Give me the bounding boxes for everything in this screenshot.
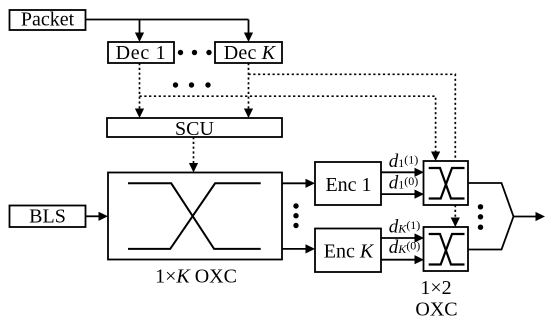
svg-text:dK(0): dK(0) [389, 237, 421, 258]
wire branch to Dec 1 with arrowhead [135, 20, 144, 43]
dashed control wire Dec K to SCU with arrowhead [244, 63, 253, 118]
wire Enc 1 output d1(1) with arrowhead [381, 168, 424, 177]
vertical ellipsis between OXC outputs [293, 203, 298, 228]
wire Enc K output dK(1) with arrowhead [381, 233, 424, 242]
crossover inside 1x2 OXC 1 [429, 168, 465, 199]
svg-text:Enc K: Enc K [324, 241, 375, 263]
block Dec K [215, 42, 282, 64]
dashed control wire Dec 1 to SCU with arrowhead [135, 63, 144, 118]
svg-text:BLS: BLS [29, 206, 66, 228]
svg-text:d1(0): d1(0) [389, 173, 419, 194]
wire 1xK OXC to Enc K with arrowhead [282, 244, 315, 253]
wire final output with arrowhead [513, 212, 546, 221]
svg-text:Dec K: Dec K [224, 42, 277, 64]
block 1x2 OXC 1 [424, 161, 469, 205]
svg-text:1×K OXC: 1×K OXC [155, 266, 237, 288]
wire Enc 1 output d1(0) with arrowhead [381, 190, 424, 199]
block Enc K [315, 229, 381, 273]
wire Packet output horizontal [86, 19, 249, 21]
ellipsis between Dec 1 and Dec K [178, 50, 212, 55]
label 1x2 OXC [415, 277, 457, 321]
block SCU [107, 118, 282, 140]
crossover path 2 inside 1xK OXC [128, 183, 261, 249]
block Dec 1 [108, 42, 174, 64]
svg-text:Dec 1: Dec 1 [116, 42, 167, 64]
svg-text:Packet: Packet [21, 9, 75, 31]
svg-text:SCU: SCU [175, 118, 214, 140]
dashed control wire lower: Dec 1 branch to 1x2 OXC 1 with arrowhead [140, 96, 441, 161]
block 1x2 OXC 2 [424, 227, 469, 271]
wire 1x2 OXC 1 output converging [468, 183, 514, 217]
svg-text:Enc 1: Enc 1 [325, 174, 371, 196]
block BLS [10, 206, 86, 228]
wire Enc K output dK(0) with arrowhead [381, 255, 424, 264]
svg-text:d1(1): d1(1) [389, 151, 419, 172]
block 1xK OXC [108, 173, 282, 260]
crossover path 1 inside 1xK OXC [128, 183, 261, 249]
wire 1x2 OXC 2 output converging [468, 217, 514, 250]
wire branch to Dec K with arrowhead [244, 20, 253, 43]
ellipsis above SCU [173, 82, 211, 87]
wire BLS to 1xK OXC with arrowhead [86, 212, 109, 221]
vertical ellipsis between 1x2 OXC outputs [478, 204, 483, 230]
dashed control wire upper: Dec K branch to 1x2 OXC 2 [249, 74, 460, 227]
block Packet [10, 9, 86, 31]
wire 1xK OXC to Enc 1 with arrowhead [282, 179, 315, 188]
crossover inside 1x2 OXC 2 [429, 234, 465, 265]
svg-text:OXC: OXC [415, 299, 457, 321]
dashed control wire SCU to 1xK OXC with arrowhead [189, 137, 198, 173]
block Enc 1 [315, 162, 381, 205]
svg-text:1×2: 1×2 [420, 277, 451, 299]
